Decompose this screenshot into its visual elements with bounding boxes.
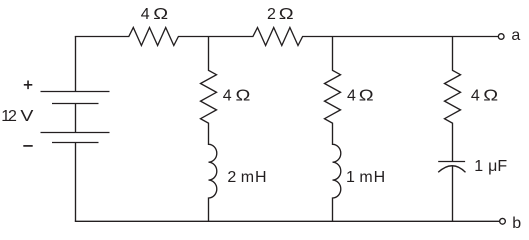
svg-text:Ω: Ω [236,86,251,104]
svg-text:V: V [20,107,33,125]
svg-text:2: 2 [8,108,17,125]
svg-text:4: 4 [471,87,480,104]
svg-text:2: 2 [267,6,276,23]
svg-text:a: a [511,27,520,44]
svg-text:Ω: Ω [153,5,168,23]
svg-text:1 mH: 1 mH [346,169,385,186]
svg-text:Ω: Ω [483,86,498,104]
svg-text:4: 4 [223,87,232,104]
svg-text:4: 4 [141,6,150,23]
svg-text:b: b [512,215,521,232]
svg-text:4: 4 [347,87,356,104]
svg-text:Ω: Ω [359,86,374,104]
svg-text:1: 1 [474,158,483,175]
svg-text:μF: μF [488,158,507,175]
svg-text:2 mH: 2 mH [227,169,266,186]
svg-text:Ω: Ω [279,5,294,23]
